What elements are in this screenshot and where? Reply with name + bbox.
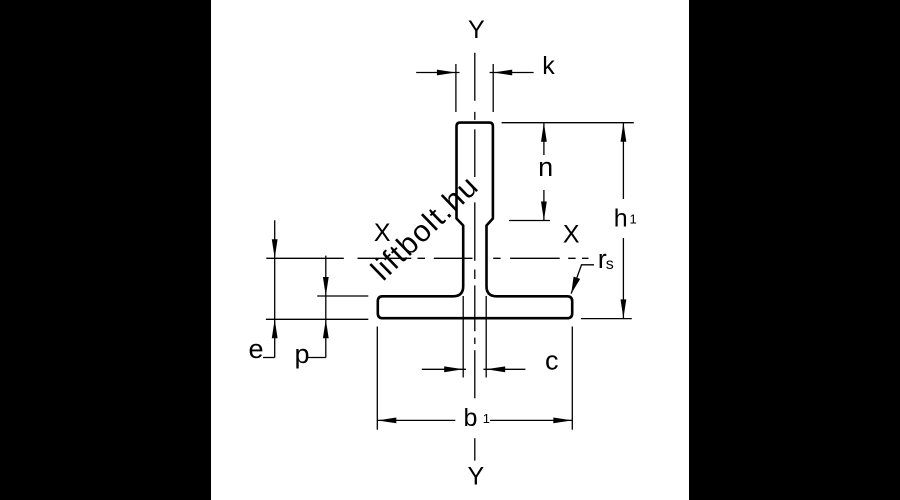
- p arrow up: [323, 319, 329, 338]
- svg-text:s: s: [606, 256, 614, 273]
- svg-text:1: 1: [483, 411, 490, 426]
- p arrow down: [323, 277, 329, 296]
- svg-text:b: b: [464, 404, 478, 432]
- e label tail: [263, 357, 275, 359]
- top extension line (profile top, for n and h1): [502, 122, 634, 124]
- svg-text:Y: Y: [467, 462, 484, 490]
- h1 bottom extension line: [581, 318, 632, 320]
- flange bottom extension line left: [266, 318, 368, 320]
- centerline Y axis (dash-dot): [474, 53, 476, 461]
- n bottom extension line: [509, 220, 550, 222]
- svg-text:k: k: [542, 52, 555, 80]
- X axis line (dash-dot): [266, 257, 588, 259]
- svg-text:X: X: [563, 220, 580, 248]
- svg-text:X: X: [374, 219, 391, 247]
- k dimension line left: [416, 72, 459, 74]
- b1 arrow right: [553, 418, 572, 424]
- b1 dimension line right: [490, 419, 572, 421]
- svg-text:n: n: [538, 152, 553, 182]
- left black bar: [0, 0, 211, 500]
- n arrow down: [541, 202, 547, 221]
- p label tail: [308, 357, 326, 359]
- c arrow left pointing right: [444, 366, 463, 372]
- rs leader arrow: [571, 277, 580, 294]
- svg-text:e: e: [249, 334, 264, 364]
- c dimension line right: [483, 368, 525, 370]
- flange top extension line left: [317, 295, 368, 297]
- svg-text:Y: Y: [468, 16, 485, 44]
- b1 arrow left: [377, 418, 396, 424]
- svg-text:p: p: [295, 339, 310, 369]
- k extension line left: [455, 64, 457, 112]
- c dimension line left: [422, 368, 466, 370]
- svg-text:h: h: [614, 205, 628, 233]
- k dimension line right: [490, 72, 534, 74]
- k arrow right: [493, 70, 512, 76]
- n dimension line: [543, 123, 545, 155]
- e arrow up: [272, 319, 278, 338]
- c extension line right: [485, 296, 487, 378]
- n arrow up: [541, 123, 547, 142]
- h1 arrow down: [621, 299, 627, 318]
- rs leader line: [571, 265, 594, 294]
- right black bar: [689, 0, 900, 500]
- h1 dimension line: [622, 123, 624, 199]
- h1 arrow up: [621, 123, 627, 142]
- white drawing area: [211, 0, 689, 500]
- k extension line right: [492, 64, 494, 112]
- profile T-section outline: [378, 123, 572, 319]
- svg-text:c: c: [545, 345, 559, 375]
- svg-text:1: 1: [630, 212, 637, 227]
- b1 extension line right: [571, 327, 573, 430]
- k arrow left: [437, 70, 456, 76]
- c extension line left: [462, 296, 464, 378]
- b1 extension line left: [376, 327, 378, 430]
- p dimension line: [325, 256, 327, 358]
- c arrow right pointing left: [486, 366, 505, 372]
- b1 dimension line left: [377, 419, 455, 421]
- e dimension line: [274, 220, 276, 357]
- e arrow down: [272, 239, 278, 258]
